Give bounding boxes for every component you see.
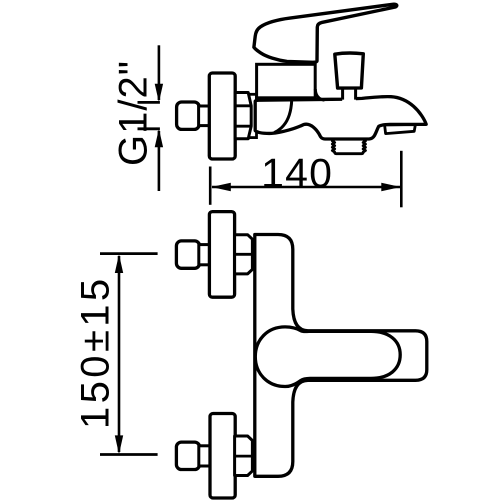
lower escutcheon (bottom view) [210,414,235,499]
body neck fillet curve (top view) [274,100,292,132]
faucet body with spout (top view) [255,97,426,139]
diverter neck (top view) [342,87,356,101]
eccentric connector sliver behind body [249,94,257,137]
140 right extension line [400,151,403,208]
hex nut (top view) [235,93,251,139]
wall supply knob (top view) [177,102,200,129]
G1/2 tick upper [138,101,160,104]
faucet body (bottom view) [255,235,427,477]
diverter knob (top view) [335,53,364,88]
G1/2 tick lower [138,127,160,130]
G1/2 arrowhead up [155,129,163,148]
escutcheon (top view) [209,73,235,159]
G1/2 dimension line upper segment [158,45,161,100]
lower nut facet line [235,455,253,458]
140 arrowhead left [211,183,231,192]
G1/2 arrowhead down [155,84,163,103]
upper escutcheon (bottom view) [209,212,234,298]
150±15 arrowhead up [115,254,123,273]
upper hex nut (bottom view) [235,235,253,274]
lower wall knob (bottom view) [176,442,199,469]
stub between knob and escutcheon (top view) [199,106,211,126]
svg-text:G1/2": G1/2" [112,60,156,166]
collar-to-body fillet (top view) [315,89,324,100]
150±15 dimension ticks [100,252,158,255]
lever handle (top view) [254,4,397,62]
svg-text:140: 140 [261,150,333,196]
G1/2 dimension line lower segment [158,131,161,191]
150±15 arrowhead down [115,435,123,454]
upper wall knob (bottom view) [176,241,199,268]
lower hex nut (bottom view) [235,436,253,476]
lever handle inner shape (bottom view) [255,327,400,387]
140 arrowhead right [381,183,401,192]
upper stub (bottom view) [199,245,210,265]
upper nut facet line [235,253,253,256]
140 dimension line [212,186,400,189]
nut facet lines (top view) [235,106,251,126]
spout aerator ring (top view) [385,125,416,134]
140 left extension line [209,167,212,205]
svg-text:150±15: 150±15 [74,275,118,429]
150±15 dimension line [118,256,121,452]
lower stub (bottom view) [199,446,210,466]
cartridge collar (top view) [257,64,316,98]
threaded shower outlet nipple (top view) [332,139,365,154]
